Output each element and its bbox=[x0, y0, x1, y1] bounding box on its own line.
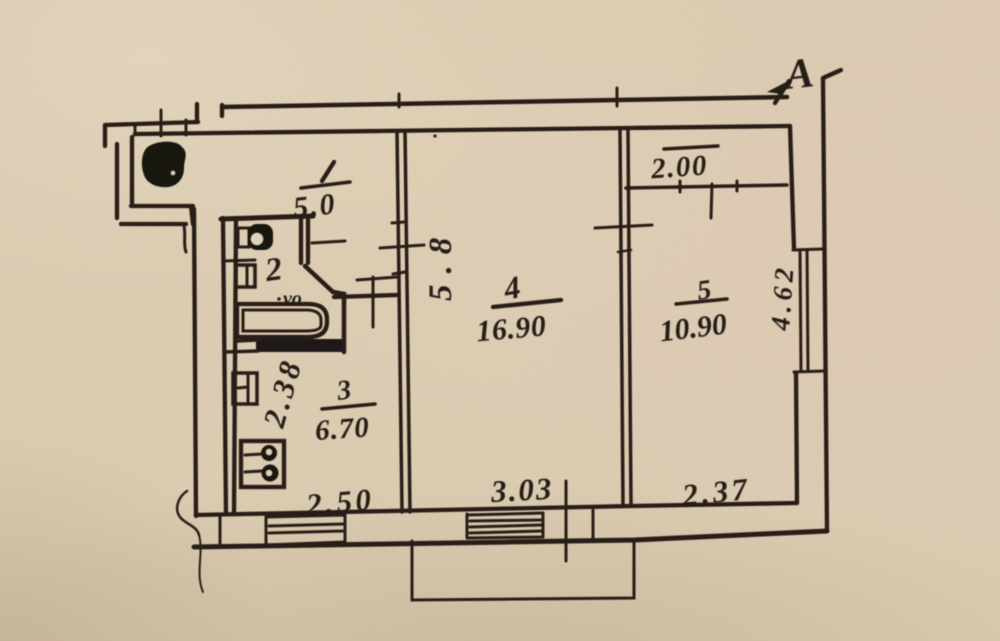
balcony top line bbox=[105, 122, 198, 146]
wall top inner bbox=[135, 126, 790, 134]
kitchen sink divider bbox=[238, 374, 248, 403]
room4 wall cross tick bbox=[380, 245, 424, 248]
bathroom left wall line1 bbox=[223, 218, 226, 514]
balcony tick 2 bbox=[160, 110, 163, 136]
bathroom bottom wall fill bbox=[256, 339, 345, 352]
wall connector node bbox=[195, 104, 199, 122]
section arrow stem bbox=[775, 81, 789, 103]
bathroom sink bbox=[236, 265, 255, 287]
stray squiggle bbox=[177, 491, 199, 535]
right window jambs bbox=[793, 249, 823, 372]
paper grain bbox=[0, 0, 1, 1]
divider dimension tick bbox=[595, 225, 652, 228]
toilet bowl bbox=[248, 224, 273, 250]
wc divider bbox=[223, 260, 255, 261]
closet tick 3 bbox=[736, 181, 739, 191]
bathroom right wall upper bbox=[301, 218, 308, 263]
bathtub inner bbox=[243, 310, 321, 331]
hall label fraction line bbox=[301, 182, 350, 188]
bathroom text dot bbox=[277, 297, 281, 301]
room4 wall tick a bbox=[392, 222, 404, 223]
closet shelf line bbox=[626, 185, 787, 188]
wall top outer bbox=[222, 97, 787, 107]
bathtub outer bbox=[237, 304, 327, 337]
right window panes bbox=[800, 250, 808, 371]
bathroom left wall line2 bbox=[234, 218, 236, 514]
door axis tick bbox=[565, 481, 568, 561]
ink drip bbox=[184, 226, 186, 252]
bathroom tick bbox=[312, 241, 345, 243]
hall south wall bbox=[334, 295, 397, 297]
closet dim overline bbox=[664, 146, 718, 149]
entry wall inner bottom bbox=[131, 206, 193, 224]
entry wall outer bottom bbox=[121, 222, 186, 226]
entry wall outer left bbox=[115, 144, 119, 218]
closet tick 2 bbox=[711, 184, 712, 218]
porch outline bbox=[412, 541, 634, 600]
garbage chute blob bbox=[142, 142, 186, 188]
stove burner 2 bbox=[262, 465, 279, 482]
hall label numerator 1 bbox=[322, 162, 334, 181]
kitchen sink bbox=[233, 373, 257, 404]
wall corner block bbox=[219, 516, 222, 546]
wall top outer left hook bbox=[220, 105, 224, 116]
room4 label fraction line bbox=[493, 300, 561, 307]
hall tick vertical bbox=[372, 277, 375, 327]
wall bottom inner bbox=[196, 503, 797, 515]
stray squiggle tail bbox=[199, 535, 203, 592]
stove outline bbox=[241, 441, 284, 487]
room4 wall tick top bbox=[398, 94, 401, 107]
kitchen window bbox=[266, 515, 345, 545]
stove lines bbox=[245, 454, 262, 472]
divider small tick bbox=[618, 250, 631, 252]
wall right outer bbox=[823, 78, 827, 531]
balcony tick 1 bbox=[134, 126, 137, 135]
wall right outer top kick bbox=[823, 70, 841, 78]
toilet bowl center bbox=[251, 233, 263, 245]
wall left outer bbox=[194, 209, 196, 516]
room4 window panes bbox=[470, 520, 541, 533]
bathroom bottom wall lines bbox=[225, 340, 258, 352]
balcony tick 3 bbox=[185, 120, 188, 135]
toilet tank bbox=[238, 228, 249, 247]
room4 wall tick b bbox=[393, 272, 405, 274]
wall room4 left line1 bbox=[397, 131, 402, 512]
hall tick horizontal bbox=[357, 277, 397, 280]
wall right inner lower bbox=[796, 373, 797, 503]
wall room4 left line2 bbox=[405, 131, 410, 512]
blob highlight bbox=[171, 171, 175, 175]
door opening jamb bbox=[592, 510, 595, 538]
room5 label fraction line bbox=[676, 299, 727, 304]
wall right inner upper bbox=[790, 126, 794, 249]
section arrow head bbox=[767, 80, 790, 94]
bathroom door diagonal bbox=[305, 266, 333, 292]
wall bottom outer bbox=[194, 531, 827, 547]
wall divider rooms 4-5 bbox=[620, 130, 631, 505]
entry wall inner left bbox=[130, 137, 134, 204]
room4 window bbox=[467, 513, 543, 538]
divider tick top bbox=[616, 88, 619, 106]
kitchen window panes bbox=[269, 524, 343, 533]
kitchen label fraction line bbox=[322, 404, 375, 409]
bathroom sink divider bbox=[246, 266, 249, 287]
bathroom top wall bbox=[221, 216, 313, 219]
ink speck bbox=[433, 134, 436, 137]
closet tick 1 bbox=[679, 181, 682, 192]
stove burner 1 bbox=[261, 445, 277, 461]
bathroom right wall lower bbox=[333, 292, 344, 352]
